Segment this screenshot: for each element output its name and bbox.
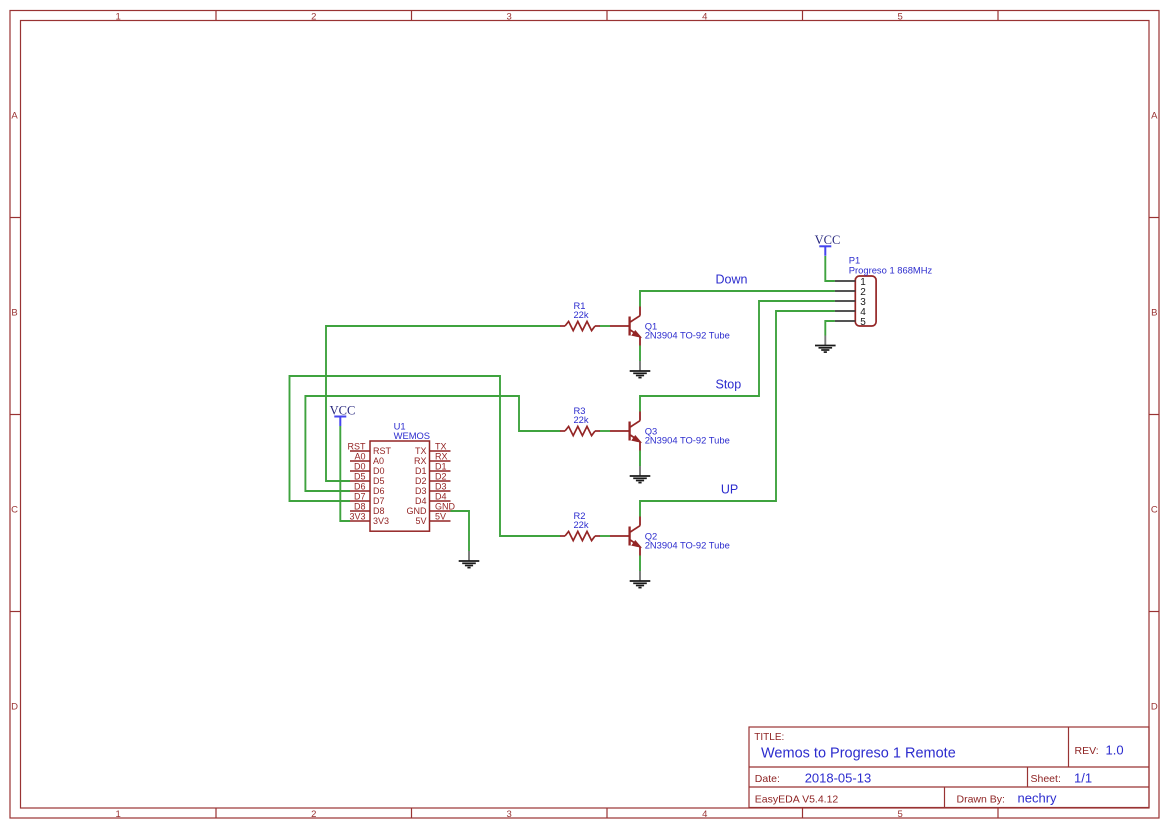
pin 1 of P1 — [835, 277, 866, 288]
pin 3 of P1 — [835, 297, 866, 308]
resistor R1 22k — [560, 300, 600, 331]
wire net D7: R2 right lead to Q2 base pin — [600, 535, 610, 537]
svg-text:3: 3 — [507, 11, 512, 22]
svg-text:TX: TX — [435, 442, 447, 452]
pin D0 (left 3) of U1 — [350, 462, 385, 476]
svg-text:WEMOS: WEMOS — [394, 430, 430, 441]
svg-text:A: A — [1151, 111, 1158, 122]
svg-text:B: B — [11, 308, 17, 319]
svg-text:D8: D8 — [354, 502, 366, 512]
svg-text:D6: D6 — [373, 486, 385, 496]
pin RX (right 2) of U1 — [414, 452, 451, 466]
title block text REV — [1075, 743, 1124, 758]
transistor Q2 2N3904 NPN — [610, 517, 730, 556]
resistor R2 22k — [560, 510, 600, 541]
svg-text:D3: D3 — [435, 482, 447, 492]
wire net D6: U1.D6 to R3 — [305, 396, 560, 491]
svg-text:D3: D3 — [415, 486, 427, 496]
svg-text:5V: 5V — [415, 516, 426, 526]
pin 5V (right 8) of U1 — [415, 512, 450, 526]
svg-text:4: 4 — [702, 11, 707, 22]
svg-text:D8: D8 — [373, 506, 385, 516]
svg-text:Stop: Stop — [716, 378, 742, 392]
svg-text:Sheet:: Sheet: — [1031, 773, 1061, 785]
label Q1 — [645, 320, 658, 331]
svg-text:RST: RST — [373, 446, 392, 456]
transistor Q1 2N3904 NPN — [610, 307, 730, 346]
svg-text:1: 1 — [116, 809, 121, 820]
svg-text:5: 5 — [860, 317, 866, 328]
svg-text:Progreso 1 868MHz: Progreso 1 868MHz — [849, 265, 933, 276]
svg-text:22k: 22k — [573, 519, 588, 530]
value 2N3904 TO-92 Tube of Q1 — [645, 329, 730, 340]
svg-text:2N3904 TO-92 Tube: 2N3904 TO-92 Tube — [645, 539, 730, 550]
svg-text:2N3904 TO-92 Tube: 2N3904 TO-92 Tube — [645, 329, 730, 340]
svg-text:Wemos to Progreso 1 Remote: Wemos to Progreso 1 Remote — [761, 746, 956, 762]
ground at U1 GND pin — [459, 551, 480, 568]
svg-text:A0: A0 — [354, 452, 365, 462]
net label Stop — [716, 378, 742, 392]
svg-text:GND: GND — [407, 506, 428, 516]
ground at P1 pin 5 — [815, 336, 836, 353]
svg-text:nechry: nechry — [1018, 791, 1058, 806]
svg-text:D2: D2 — [435, 472, 447, 482]
title block text EasyEDA version — [755, 794, 839, 806]
svg-text:2: 2 — [311, 11, 316, 22]
pin 5 of P1 — [835, 317, 866, 328]
pin 4 of P1 — [835, 307, 866, 318]
svg-text:D0: D0 — [373, 466, 385, 476]
transistor Q3 2N3904 NPN — [610, 412, 730, 451]
pin D5 (left 4) of U1 — [350, 472, 385, 486]
svg-text:B: B — [1151, 308, 1157, 319]
label R3 — [574, 405, 586, 416]
title block text Date — [755, 771, 871, 786]
wire net GND: P1 pin 5 to ground — [825, 321, 835, 336]
pin A0 (left 2) of U1 — [350, 452, 384, 466]
value 22k of R2 — [573, 519, 588, 530]
value 22k of R3 — [573, 414, 588, 425]
svg-text:2: 2 — [311, 809, 316, 820]
svg-text:D6: D6 — [354, 482, 366, 492]
IC U1 WEMOS module — [348, 420, 456, 531]
label Q3 — [645, 425, 658, 436]
power flag VCC (left, at U1) — [330, 403, 356, 426]
pin D8 (left 7) of U1 — [350, 502, 385, 516]
label Q2 — [645, 530, 658, 541]
svg-text:2N3904 TO-92 Tube: 2N3904 TO-92 Tube — [645, 434, 730, 445]
svg-text:D2: D2 — [415, 476, 427, 486]
pin D6 (left 5) of U1 — [350, 482, 385, 496]
title block text TITLE — [754, 732, 955, 762]
svg-text:C: C — [11, 505, 18, 516]
svg-text:22k: 22k — [573, 414, 588, 425]
wire net GND: Q1 emitter to ground — [639, 346, 641, 362]
connector P1 Progreso 1 868MHz — [835, 255, 933, 328]
ground at Q1 emitter — [630, 361, 651, 378]
power flag VCC (right, at P1) — [815, 233, 841, 256]
resistor R3 22k — [560, 405, 600, 436]
pin TX (right 1) of U1 — [415, 442, 451, 456]
svg-text:D7: D7 — [373, 496, 385, 506]
svg-text:RX: RX — [435, 452, 448, 462]
svg-text:D7: D7 — [354, 492, 366, 502]
svg-text:1/1: 1/1 — [1074, 771, 1092, 786]
svg-text:D1: D1 — [415, 466, 427, 476]
svg-text:RST: RST — [348, 442, 367, 452]
wire net VCC: flag to P1 pin 1 — [825, 256, 835, 281]
svg-text:UP: UP — [721, 483, 738, 497]
svg-text:RX: RX — [414, 456, 427, 466]
svg-text:22k: 22k — [573, 309, 588, 320]
ground at Q2 emitter — [630, 571, 651, 588]
svg-text:TX: TX — [415, 446, 427, 456]
svg-text:4: 4 — [702, 809, 707, 820]
wire net D5: R1 right lead to Q1 base pin — [600, 325, 610, 327]
svg-text:Drawn By:: Drawn By: — [957, 794, 1005, 806]
pin 2 of P1 — [835, 287, 866, 298]
svg-text:C: C — [1151, 505, 1158, 516]
svg-text:1: 1 — [116, 11, 121, 22]
svg-text:D4: D4 — [415, 496, 427, 506]
svg-text:D5: D5 — [373, 476, 385, 486]
wire net Down: Q1 collector to P1 pin 2 — [640, 291, 835, 307]
label R1 — [574, 300, 586, 311]
pin D7 (left 6) of U1 — [350, 492, 385, 506]
pin 3V3 (left 8) of U1 — [349, 512, 389, 526]
pin D1 (right 3) of U1 — [415, 462, 451, 476]
svg-text:REV:: REV: — [1075, 745, 1099, 757]
svg-text:3: 3 — [507, 809, 512, 820]
svg-text:D5: D5 — [354, 472, 366, 482]
pin GND (right 7) of U1 — [407, 502, 456, 516]
wire net D7: U1.D7 to R2 — [290, 376, 561, 536]
wire net VCC: flag to U1.3V3 — [340, 426, 350, 521]
svg-text:EasyEDA V5.4.12: EasyEDA V5.4.12 — [755, 794, 839, 806]
wire net GND: U1.GND to ground — [451, 511, 470, 551]
svg-text:Down: Down — [716, 273, 748, 287]
svg-text:A: A — [11, 111, 18, 122]
svg-text:VCC: VCC — [815, 233, 841, 247]
svg-text:Date:: Date: — [755, 773, 780, 785]
svg-text:2018-05-13: 2018-05-13 — [805, 771, 872, 786]
value 2N3904 TO-92 Tube of Q3 — [645, 434, 730, 445]
svg-text:1.0: 1.0 — [1106, 743, 1124, 758]
wire net D5: U1.D5 to R1 to Q1 base — [326, 326, 560, 481]
svg-text:D1: D1 — [435, 462, 447, 472]
title block text Sheet — [1031, 771, 1093, 786]
ground at Q3 emitter — [630, 466, 651, 483]
svg-text:VCC: VCC — [330, 403, 356, 417]
svg-text:3V3: 3V3 — [373, 516, 389, 526]
svg-text:TITLE:: TITLE: — [754, 732, 784, 743]
pin D2 (right 4) of U1 — [415, 472, 451, 486]
label R2 — [574, 510, 586, 521]
pin D4 (right 6) of U1 — [415, 492, 451, 506]
pin RST (left 1) of U1 — [348, 442, 392, 456]
svg-text:5: 5 — [898, 809, 903, 820]
value 22k of R1 — [573, 309, 588, 320]
value 2N3904 TO-92 Tube of Q2 — [645, 539, 730, 550]
title block text Drawn By — [957, 791, 1058, 806]
svg-text:A0: A0 — [373, 456, 384, 466]
svg-text:GND: GND — [435, 502, 456, 512]
net label UP — [721, 483, 738, 497]
title block — [749, 727, 1149, 808]
net label Down — [716, 273, 748, 287]
wire net Stop: Q3 collector to P1 pin 3 — [640, 301, 835, 412]
svg-text:D0: D0 — [354, 462, 366, 472]
svg-text:3V3: 3V3 — [349, 512, 365, 522]
svg-text:D: D — [1151, 702, 1158, 713]
pin D3 (right 5) of U1 — [415, 482, 451, 496]
wire net GND: Q2 emitter to ground — [639, 556, 641, 572]
svg-text:5: 5 — [898, 11, 903, 22]
svg-text:D: D — [11, 702, 18, 713]
wire net D6: R3 right lead to Q3 base pin — [600, 430, 610, 432]
wire net GND: Q3 emitter to ground — [639, 451, 641, 467]
wire net UP: Q2 collector to P1 pin 4 — [640, 311, 835, 517]
svg-text:5V: 5V — [435, 512, 446, 522]
svg-text:D4: D4 — [435, 492, 447, 502]
